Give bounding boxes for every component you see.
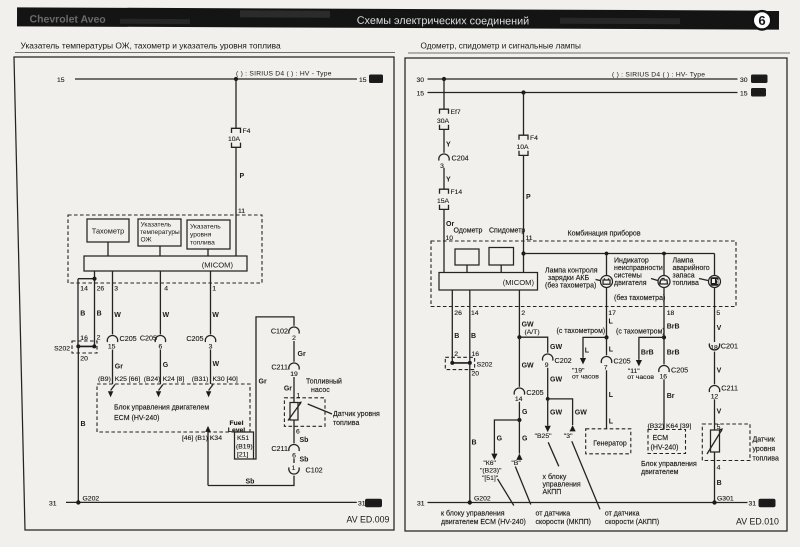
MICOM box (right) [439, 273, 538, 291]
wire Gr to C211 [294, 341, 306, 362]
svg-text:BrB: BrB [667, 324, 680, 331]
svg-text:C211: C211 [271, 363, 288, 372]
svg-text:GW: GW [550, 410, 562, 417]
MIL lamp [658, 254, 670, 307]
fuse F4 10A (right) [517, 135, 539, 155]
svg-text:Sb: Sb [300, 437, 309, 444]
note MKPP speed sensor [536, 511, 592, 527]
wires MICOM pins 3 4 1 to C205 [113, 271, 211, 334]
K51 terminal box [235, 432, 254, 459]
svg-text:топлива: топлива [753, 456, 779, 463]
svg-text:30: 30 [417, 77, 425, 84]
svg-text:Y: Y [446, 142, 451, 149]
svg-text:P: P [526, 194, 531, 201]
svg-text:двигателем: двигателем [641, 469, 679, 476]
left title underline [15, 52, 395, 54]
wires B B pins 26 14 [452, 290, 476, 363]
svg-text:Br: Br [667, 393, 675, 400]
ground net 31 line (right) [417, 501, 756, 508]
svg-text:зарядки АКБ: зарядки АКБ [548, 275, 589, 282]
node L branch [604, 335, 608, 339]
left panel frame [14, 57, 394, 530]
svg-text:B: B [471, 333, 476, 340]
svg-text:C205: C205 [186, 334, 203, 343]
svg-text:K30 [40]: K30 [40] [213, 376, 238, 383]
svg-text:V: V [717, 325, 722, 332]
svg-text:Индикатор: Индикатор [614, 258, 649, 265]
low fuel lamp [709, 254, 721, 307]
svg-text:C102: C102 [306, 466, 323, 475]
svg-text:ECM: ECM [653, 435, 669, 442]
svg-text:от часов: от часов [572, 374, 599, 381]
speedometer box [489, 248, 514, 266]
wire Br to ECM (right) [664, 379, 675, 429]
svg-text:B: B [81, 421, 86, 428]
svg-text:L: L [585, 348, 590, 355]
wires odo/speedo to MICOM [467, 265, 501, 273]
svg-text:2: 2 [97, 335, 101, 342]
svg-text:уровня: уровня [190, 232, 212, 239]
svg-text:( ) : SIRIUS D4 ( ) : HV- Typ: ( ) : SIRIUS D4 ( ) : HV- Type [612, 72, 705, 79]
svg-text:14: 14 [80, 286, 88, 293]
fuel sender dashed box (left) [284, 398, 325, 427]
ECM dashed box (right) [648, 430, 686, 454]
node G split [517, 418, 521, 422]
svg-text:(без тахометра): (без тахометра) [614, 294, 665, 302]
svg-text:S202: S202 [54, 345, 70, 352]
ground arrow pin K30 [206, 385, 213, 398]
svg-text:насос: насос [311, 387, 330, 394]
GND box (left) [365, 499, 382, 508]
node on 15 line [234, 77, 238, 81]
svg-text:1: 1 [292, 465, 296, 472]
svg-text:(B19): (B19) [236, 444, 253, 451]
svg-text:(MICOM): (MICOM) [202, 261, 234, 270]
svg-text:IGN: IGN [372, 77, 381, 83]
wire Or to cluster pin 10 [444, 209, 454, 272]
svg-text:16: 16 [472, 351, 480, 358]
wire BrB to C205 pin 16 [664, 337, 680, 364]
svg-text:1: 1 [297, 393, 301, 400]
svg-text:(с тахометром): (с тахометром) [557, 328, 606, 335]
ground net 31 line (left) [49, 501, 366, 508]
svg-text:от часов: от часов [627, 374, 654, 381]
svg-text:к блоку управления: к блоку управления [441, 510, 505, 518]
svg-text:GW: GW [550, 377, 562, 384]
svg-text:GW: GW [522, 322, 534, 329]
svg-text:C205: C205 [526, 388, 543, 397]
svg-text:6: 6 [159, 343, 163, 350]
svg-text:Лампа: Лампа [673, 258, 694, 265]
ground arrow pin K24 [156, 385, 163, 398]
svg-text:9: 9 [545, 362, 549, 369]
svg-text:G301: G301 [717, 495, 734, 502]
svg-text:Sb: Sb [300, 457, 309, 464]
svg-text:BAT.: BAT. [754, 77, 765, 83]
svg-text:Указатель температуры ОЖ, тахо: Указатель температуры ОЖ, тахометр и ука… [21, 41, 282, 51]
svg-text:скорости (МКПП): скорости (МКПП) [536, 519, 592, 526]
svg-text:B: B [454, 333, 459, 340]
node lamp1 feed [605, 252, 609, 256]
connector C102 pin 2 [271, 327, 299, 342]
svg-text:от датчика: от датчика [536, 511, 571, 518]
svg-text:ОЖ: ОЖ [141, 237, 152, 244]
coolant temp gauge box [138, 219, 181, 246]
svg-text:[46] (B1) K34: [46] (B1) K34 [182, 435, 222, 442]
svg-text:B: B [97, 311, 102, 318]
svg-text:P: P [240, 173, 245, 180]
svg-text:Лампа контроля: Лампа контроля [545, 268, 598, 275]
branch G to K6 arrow [480, 420, 519, 482]
svg-text:GW: GW [522, 363, 534, 370]
page number circle 6 [753, 11, 771, 29]
svg-text:11: 11 [238, 208, 245, 215]
svg-text:Gr: Gr [298, 351, 306, 358]
connector C205 pin 14 [514, 388, 543, 403]
svg-text:BrB: BrB [667, 350, 680, 357]
wire from 15 line to fuse F4 [235, 79, 237, 128]
svg-text:(с тахометром): (с тахометром) [616, 329, 665, 336]
svg-text:7: 7 [604, 364, 608, 371]
svg-text:2: 2 [292, 335, 296, 342]
svg-text:17: 17 [608, 310, 616, 317]
svg-text:G202: G202 [83, 495, 100, 502]
svg-text:4: 4 [717, 465, 721, 472]
svg-text:х блоку: х блоку [543, 473, 567, 481]
svg-text:12: 12 [711, 393, 719, 400]
svg-text:W: W [163, 312, 170, 319]
splice S202 (right panel) [445, 351, 492, 378]
fuel sender resistor (right) [707, 428, 723, 454]
svg-text:15: 15 [417, 90, 425, 97]
svg-text:G202: G202 [474, 495, 491, 502]
connector C202 pin 9 [543, 354, 572, 369]
svg-text:30A: 30A [437, 118, 450, 125]
svg-text:Fuel: Fuel [230, 420, 244, 427]
svg-text:31: 31 [358, 501, 366, 508]
svg-text:19: 19 [290, 371, 298, 378]
net 15 power line (left panel) [57, 77, 367, 84]
leader B25 to AKPP note [548, 442, 559, 466]
wire BrB from MICOM pin 18 [616, 307, 680, 338]
connector C205 pin 16 [659, 365, 688, 380]
svg-text:неисправности: неисправности [614, 265, 663, 272]
GND box (right) [759, 499, 776, 508]
svg-text:"[51]": "[51]" [482, 475, 499, 482]
svg-text:Chevrolet Aveo: Chevrolet Aveo [29, 13, 105, 25]
svg-text:C211: C211 [721, 384, 738, 393]
wire Gr to sender pin 1 [284, 377, 301, 403]
svg-text:C205: C205 [120, 334, 137, 343]
connector C205 pin 15 [107, 334, 136, 350]
BAT box [751, 75, 768, 84]
svg-text:B: B [80, 311, 85, 318]
wire L to generator [607, 370, 614, 429]
note AKPP speed sensor [605, 511, 659, 527]
ECM pin labels row [98, 376, 238, 383]
node lamp2 feed [662, 252, 666, 256]
wire labels B B W W W [80, 311, 219, 320]
svg-text:K25 [66]: K25 [66] [115, 376, 140, 383]
svg-text:V: V [717, 368, 722, 375]
right title underline [408, 52, 790, 54]
charge lamp text [545, 268, 600, 290]
connector C211 pin 12 [709, 384, 738, 401]
wire from 15 line through fuse F4 (right) [523, 93, 525, 136]
svg-text:31: 31 [49, 501, 57, 508]
svg-text:6: 6 [292, 452, 296, 459]
svg-text:F14: F14 [451, 189, 463, 196]
connector C205 pin 3 [186, 334, 215, 350]
fuel sender resistor (left) [288, 401, 302, 420]
node on 15 line (right) [521, 90, 525, 94]
svg-text:( ) : SIRIUS D4 ( ) : HV - Ty: ( ) : SIRIUS D4 ( ) : HV - Type [236, 71, 332, 78]
svg-text:Указатель: Указатель [141, 222, 172, 229]
svg-text:от датчика: от датчика [605, 511, 640, 518]
svg-text:двигателя: двигателя [614, 280, 647, 287]
MICOM pin labels 26 14 2 17 18 5 [454, 310, 720, 317]
wire MICOM pin 26 with branch node [78, 271, 97, 346]
svg-text:Спидометр: Спидометр [489, 228, 525, 235]
branch BrB to clock arrow "11" [627, 337, 664, 381]
svg-text:(B9): (B9) [98, 376, 111, 383]
wire L from MICOM pin 17 [557, 307, 614, 338]
svg-text:"3": "3" [564, 433, 573, 440]
svg-text:11: 11 [526, 235, 533, 242]
svg-text:Ef7: Ef7 [451, 109, 461, 116]
svg-text:G: G [163, 362, 169, 369]
svg-text:Одометр: Одометр [454, 228, 483, 235]
svg-text:топлива: топлива [333, 420, 359, 427]
wire GW to "B25" arrow [535, 399, 563, 440]
svg-text:G: G [497, 436, 503, 443]
svg-text:15: 15 [740, 90, 748, 97]
svg-text:B: B [472, 440, 477, 447]
lamp feed bus wire [524, 253, 715, 255]
instrument cluster dashed box (left) [68, 215, 262, 283]
svg-text:GW: GW [575, 410, 587, 417]
MIL lamp text [614, 258, 665, 303]
generator dashed box [586, 429, 631, 454]
wire Gr fuel level sense [254, 317, 295, 459]
node BrB branch [662, 335, 666, 339]
svg-text:C211: C211 [271, 444, 288, 453]
svg-text:4: 4 [164, 286, 168, 293]
svg-text:системы: системы [614, 273, 642, 280]
ground point G202 (left) [76, 495, 99, 504]
svg-text:26: 26 [454, 310, 462, 317]
pin labels 14 26 3 4 1 [80, 286, 216, 293]
svg-text:2: 2 [454, 351, 458, 358]
connector C211 pin 6 (left) [271, 444, 299, 459]
low fuel lamp text [673, 258, 710, 288]
tachometer box [87, 219, 129, 242]
ground point G202 (right) [468, 495, 491, 504]
svg-text:14: 14 [515, 396, 523, 403]
odometer box [455, 249, 479, 265]
svg-text:Датчик уровня: Датчик уровня [333, 411, 380, 418]
connector C201 pin 18 [709, 342, 738, 352]
svg-text:16: 16 [660, 373, 668, 380]
connector C102 pin 1 [289, 465, 323, 475]
sender pin 6 and wire Sb [294, 420, 308, 444]
ground point G301 [712, 495, 734, 504]
svg-text:16: 16 [80, 335, 88, 342]
svg-text:скорости (АКПП): скорости (АКПП) [605, 519, 659, 526]
svg-text:30: 30 [740, 77, 748, 84]
svg-text:топлива: топлива [673, 280, 699, 287]
svg-text:V: V [717, 409, 722, 416]
wire P to cluster [236, 147, 245, 215]
svg-text:Схемы электрических соединений: Схемы электрических соединений [357, 15, 530, 28]
svg-text:20: 20 [80, 356, 88, 363]
node GW split [546, 397, 550, 401]
svg-text:уровня: уровня [753, 446, 776, 453]
svg-text:Комбинация приборов: Комбинация приборов [568, 230, 641, 238]
wires gauges to MICOM [108, 215, 236, 256]
svg-text:Gr: Gr [115, 364, 123, 371]
lamp feed bus node [521, 251, 525, 255]
svg-text:Y: Y [446, 177, 451, 184]
wire B from S202 to G202 [78, 346, 85, 502]
wire GW below C202 [548, 368, 563, 399]
odometer speedometer labels [454, 228, 526, 235]
svg-text:6: 6 [758, 13, 765, 28]
sender pin 4 wire B to G301 [715, 452, 722, 503]
svg-text:(без тахометра): (без тахометра) [545, 282, 596, 290]
svg-text:W: W [212, 312, 219, 319]
svg-text:Топливный: Топливный [306, 378, 342, 386]
fuse F4 10A (left panel) [228, 128, 251, 147]
node on 30 line [442, 77, 446, 81]
svg-text:C205: C205 [614, 357, 631, 366]
branch wire GW to C202 [519, 337, 562, 353]
svg-text:14: 14 [471, 310, 479, 317]
branch GW to "3" arrow [548, 399, 588, 440]
svg-text:31: 31 [417, 501, 425, 508]
svg-text:31: 31 [749, 501, 757, 508]
arrow into ECM bottom K34 [205, 426, 211, 486]
header black banner [17, 7, 779, 29]
svg-text:GND: GND [368, 501, 380, 507]
svg-text:C205: C205 [140, 333, 157, 342]
leader B to MKPP speed sensor note [515, 467, 531, 505]
connector C204 pin 3 [439, 154, 469, 170]
svg-text:AV ED.010: AV ED.010 [736, 517, 779, 527]
svg-text:температуры: температуры [140, 229, 180, 236]
leader 3 to AKPP speed sensor note [572, 441, 600, 509]
svg-text:3: 3 [114, 286, 118, 293]
svg-text:5: 5 [716, 310, 720, 317]
svg-text:10A: 10A [228, 136, 241, 143]
svg-text:C204: C204 [452, 154, 469, 163]
svg-text:Level: Level [228, 427, 245, 434]
svg-text:20: 20 [472, 371, 480, 378]
svg-text:L: L [609, 319, 614, 326]
net 15 ignition line (right) [417, 90, 748, 97]
svg-text:W: W [213, 361, 220, 368]
svg-text:запаса: запаса [673, 273, 695, 280]
charge warning lamp [601, 254, 613, 307]
svg-text:L: L [609, 419, 614, 426]
svg-text:Блок управления двигателем: Блок управления двигателем [114, 405, 209, 412]
net 30 battery line [417, 77, 748, 84]
svg-text:G: G [522, 409, 528, 416]
svg-text:Блок управления: Блок управления [641, 461, 697, 468]
svg-text:"К6": "К6" [483, 460, 496, 467]
svg-text:Одометр, спидометр и сигнальны: Одометр, спидометр и сигнальные лампы [421, 42, 581, 51]
splice S202 (left panel) [54, 335, 100, 363]
svg-text:15: 15 [108, 343, 116, 350]
svg-text:10A: 10A [517, 144, 530, 151]
connector C211 pin 19 [271, 363, 299, 378]
wire V to fuel sender (right) [715, 399, 722, 431]
svg-text:C202: C202 [555, 356, 572, 365]
svg-text:Gr: Gr [284, 386, 292, 393]
svg-text:двигателем ECM (HV-240): двигателем ECM (HV-240) [441, 519, 526, 526]
svg-text:управления: управления [543, 482, 581, 489]
svg-text:3: 3 [209, 343, 213, 350]
fuse F14 15A [437, 189, 462, 209]
svg-text:Генератор: Генератор [593, 441, 627, 448]
wire 30 line to fuse Ef7 [443, 79, 445, 109]
svg-text:(B24): (B24) [144, 376, 161, 383]
svg-text:15: 15 [57, 77, 65, 84]
svg-text:ECM (HV-240): ECM (HV-240) [114, 415, 160, 422]
wire Y to F14 [444, 168, 451, 189]
note to ECM (bottom left) [441, 510, 526, 527]
svg-text:L: L [609, 392, 614, 399]
svg-text:S202: S202 [477, 362, 493, 369]
svg-text:(MICOM): (MICOM) [503, 278, 535, 287]
wire G below C205/14 [519, 402, 528, 420]
svg-text:Датчик: Датчик [753, 437, 776, 444]
svg-text:(HV-240): (HV-240) [651, 445, 679, 452]
wire GW from MICOM pin 2 [519, 290, 539, 337]
wire Y to C204 [444, 129, 451, 152]
wire Sb return to ECM K34 [208, 476, 294, 486]
wire Sb to C102 [294, 457, 308, 464]
leader [51] to ECM note [498, 479, 514, 506]
combination cluster dashed box (right) [431, 241, 736, 307]
svg-text:F4: F4 [530, 135, 538, 142]
fuse Ef7 30A [437, 109, 461, 129]
node pin2 branch [517, 335, 521, 339]
branch L to clock arrow "19" [572, 337, 607, 380]
svg-text:"B25": "B25" [535, 433, 553, 440]
svg-text:B: B [717, 480, 722, 487]
fuel sender label (left) [333, 411, 380, 427]
svg-text:1: 1 [212, 286, 216, 293]
svg-text:F4: F4 [243, 128, 251, 135]
fuel gauge box [187, 220, 230, 249]
wire GW main to C205 pin 14 [519, 337, 534, 387]
svg-text:15A: 15A [437, 198, 450, 205]
svg-text:Тахометр: Тахометр [92, 227, 124, 236]
svg-text:(A/T): (A/T) [525, 329, 540, 336]
wire P pin 11 (right) [524, 155, 533, 272]
svg-text:Gr: Gr [259, 379, 267, 386]
svg-text:2: 2 [521, 310, 525, 317]
IGN box (right) [751, 88, 766, 97]
svg-text:IGN: IGN [754, 91, 763, 97]
svg-text:6: 6 [296, 429, 300, 436]
leader to sender label [308, 404, 332, 414]
MICOM box (left) [84, 256, 247, 271]
svg-text:G: G [522, 436, 528, 443]
wires C205 to ECM with labels Gr G W [113, 350, 220, 385]
svg-text:топлива: топлива [190, 240, 215, 247]
